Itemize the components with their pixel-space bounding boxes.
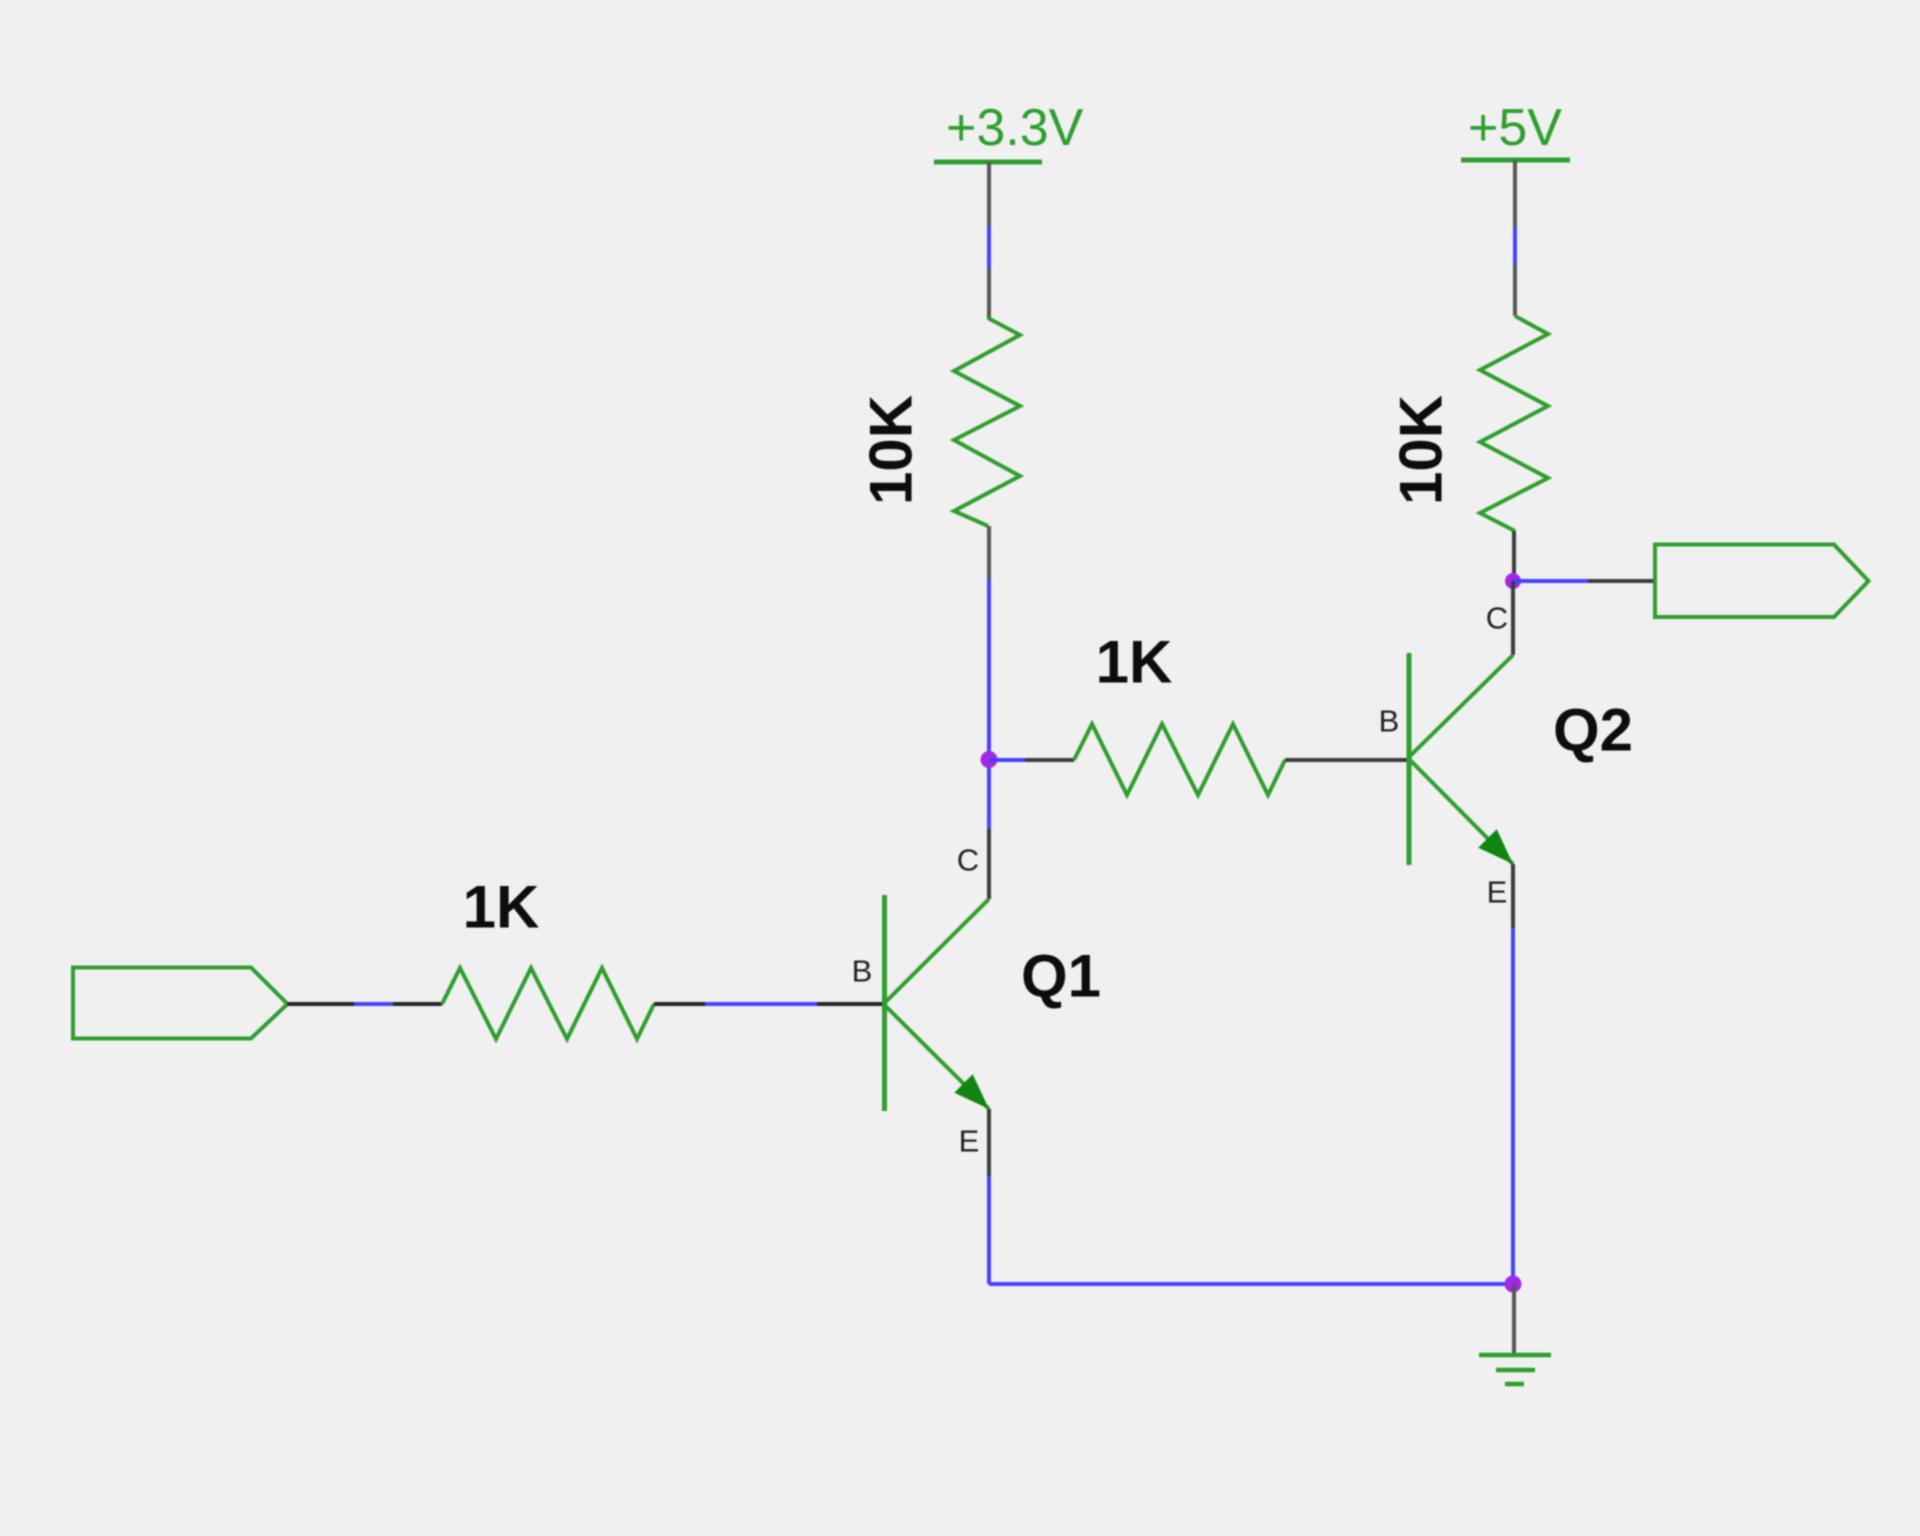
wire: +3.3V stem blue segment <box>987 226 991 268</box>
transistor Q1 collector stroke <box>885 899 990 1003</box>
transistor Q1 emitter stroke with arrow <box>885 1005 990 1109</box>
resistor 10K (left, vertical) <box>954 318 1020 526</box>
ground symbol <box>1479 1355 1551 1384</box>
wire: bottom node to ground (gray) <box>1512 1284 1516 1354</box>
svg-text:B: B <box>852 954 873 989</box>
wire: node to Q1 collector (gray) <box>987 829 991 899</box>
svg-text:E: E <box>1487 875 1508 910</box>
svg-text:1K: 1K <box>463 874 540 941</box>
node A junction dot <box>981 751 998 768</box>
svg-text:10K: 10K <box>858 395 925 505</box>
svg-text:B: B <box>1379 704 1400 739</box>
wire: node OUT to Q2 collector (gray) <box>1511 581 1515 655</box>
wire: black to 1K resistor <box>393 1002 442 1006</box>
wire: +5V stem blue segment <box>1513 227 1517 264</box>
wire: gray to 1K resistor <box>1025 758 1074 762</box>
wire: gray to output port <box>1588 579 1655 583</box>
wire: input blue segment <box>354 1002 393 1006</box>
resistor 10K (right, vertical) <box>1480 316 1548 531</box>
wire: 1K to base black <box>654 1002 705 1006</box>
svg-text:C: C <box>957 843 979 878</box>
output port (right) <box>1655 545 1869 618</box>
node OUT junction dot <box>1505 573 1521 589</box>
svg-text:+3.3V: +3.3V <box>946 99 1084 157</box>
svg-text:C: C <box>1486 601 1508 636</box>
wire: input port to 1K (black) <box>288 1002 355 1006</box>
wire: resistor bottom to node (gray) <box>987 526 991 579</box>
wire: +5V stem gray lower <box>1513 264 1517 316</box>
transistor Q2 collector stroke <box>1409 655 1513 757</box>
power +3.3V rail bar <box>934 160 1042 165</box>
svg-text:Q2: Q2 <box>1553 697 1633 764</box>
svg-text:Q1: Q1 <box>1021 943 1101 1010</box>
resistor 1K (input, horizontal) <box>442 968 654 1039</box>
svg-text:+5V: +5V <box>1468 99 1562 157</box>
input port (left) <box>73 968 288 1039</box>
transistor Q2 base bar <box>1407 653 1412 865</box>
svg-text:E: E <box>959 1124 980 1159</box>
transistor Q2 emitter arrowhead <box>1478 829 1513 864</box>
wire: bottom blue horizontal <box>989 1282 1513 1286</box>
wire: +3.3V stem gray lower <box>987 268 991 319</box>
wire: +3.3V stem gray upper <box>987 162 991 226</box>
svg-text:1K: 1K <box>1096 629 1173 696</box>
wire: node OUT blue stub <box>1513 579 1588 583</box>
svg-text:10K: 10K <box>1388 395 1455 505</box>
wire: 1K to Q2 base <box>1285 758 1409 762</box>
transistor Q2 emitter stroke <box>1409 759 1513 864</box>
wire: node A blue horizontal stub <box>989 758 1025 762</box>
wire: Q2 emitter gray <box>1511 864 1515 928</box>
wire: blue vertical into node A <box>987 579 991 829</box>
bottom node junction dot <box>1505 1276 1522 1293</box>
wire: Q2 emitter blue down to bottom node <box>1511 928 1515 1284</box>
wire: 10K bottom to output node (gray) <box>1512 531 1516 581</box>
wire: black into Q1 base <box>817 1002 884 1006</box>
transistor Q1 emitter arrowhead <box>954 1074 989 1109</box>
wire: +5V stem gray upper <box>1513 160 1517 227</box>
wire: Q1 emitter gray <box>987 1109 991 1176</box>
resistor 1K (middle, horizontal) <box>1074 724 1285 795</box>
wire: blue segment before base <box>705 1002 817 1006</box>
wire: Q1 emitter blue down <box>987 1176 991 1284</box>
power +5V rail bar <box>1461 158 1570 163</box>
transistor Q1 base bar <box>882 895 887 1111</box>
